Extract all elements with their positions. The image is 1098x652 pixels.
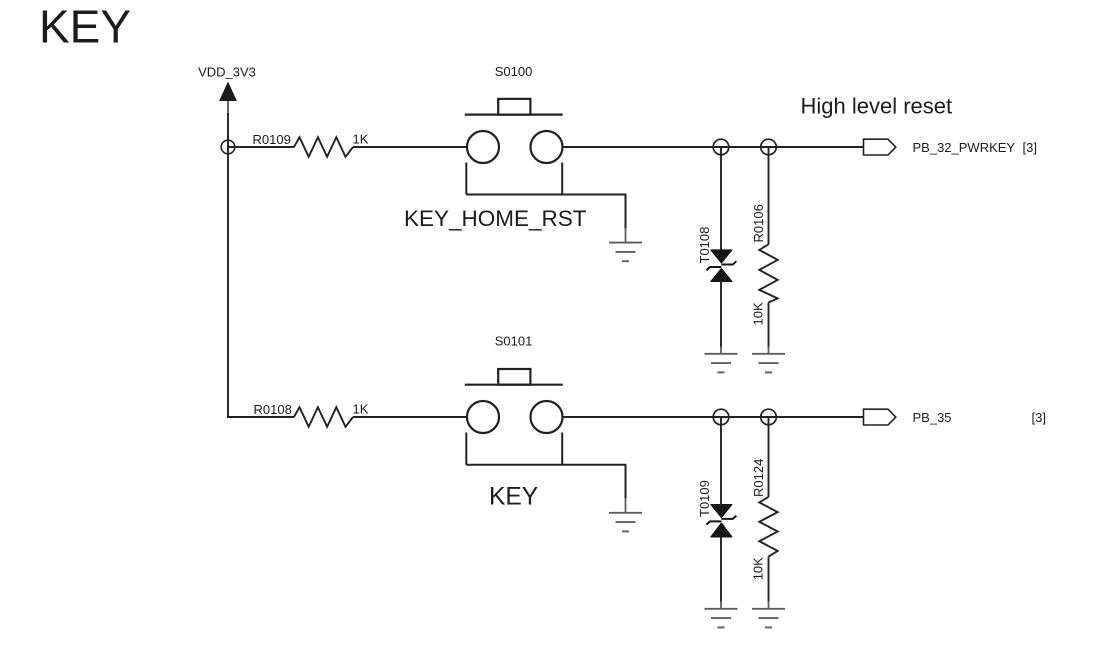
svg-text:10K: 10K xyxy=(751,557,766,580)
switch S0100 right leg xyxy=(561,163,563,195)
ground under T0109 xyxy=(705,609,738,628)
svg-text:1K: 1K xyxy=(353,132,369,147)
svg-text:T0108: T0108 xyxy=(697,227,712,264)
switch S0101 button xyxy=(498,369,530,385)
svg-text:1K: 1K xyxy=(353,402,369,417)
resistor R0124 xyxy=(759,497,777,557)
wire R0124 to ground xyxy=(768,557,770,602)
off-page connector tag PB_35 xyxy=(864,409,896,425)
switch S0101 right contact xyxy=(531,401,563,433)
switch S0101 right leg xyxy=(561,433,563,465)
ground under R0106 xyxy=(752,354,785,373)
pin tail gray xyxy=(720,601,722,608)
svg-text:KEY_HOME_RST: KEY_HOME_RST xyxy=(404,206,587,231)
svg-text:R0108: R0108 xyxy=(254,402,292,417)
ground under R0124 xyxy=(752,609,785,628)
svg-text:[3]: [3] xyxy=(1032,410,1046,425)
switch S0100 left leg xyxy=(465,163,467,195)
off-page connector tag PB_32_PWRKEY xyxy=(864,139,896,155)
pin tail gray xyxy=(768,347,770,354)
svg-text:R0124: R0124 xyxy=(751,459,766,497)
switch S0100 bottom bar / wire to ground xyxy=(466,195,625,230)
junction node circle 3 xyxy=(713,409,729,425)
stem to resistor R0124 xyxy=(768,417,770,497)
svg-text:R0109: R0109 xyxy=(253,132,291,147)
stem to diode T0109 xyxy=(720,417,722,505)
svg-text:S0100: S0100 xyxy=(495,64,533,79)
power pin stem (gray) xyxy=(227,101,229,115)
resistor R0108 xyxy=(294,407,353,427)
svg-text:KEY: KEY xyxy=(489,484,538,511)
wire diode to ground xyxy=(720,281,722,347)
svg-text:[3]: [3] xyxy=(1023,140,1037,155)
resistor R0106 xyxy=(759,244,777,302)
node A circle at VDD branch xyxy=(221,140,235,154)
switch S0101 bottom bar / wire to ground xyxy=(466,465,625,499)
svg-text:PB_32_PWRKEY: PB_32_PWRKEY xyxy=(913,140,1016,155)
ground under S0101 xyxy=(609,513,642,532)
wire S0100 to output tag xyxy=(563,146,864,148)
ground pin tail (gray) xyxy=(625,228,627,242)
svg-text:10K: 10K xyxy=(751,302,766,325)
wire node to R0109 xyxy=(228,146,294,148)
wire R0109 to S0100 xyxy=(353,146,467,148)
wire vertical from VDD node down to lower branch and corner to R0108 xyxy=(228,113,294,417)
switch S0100 left contact xyxy=(467,131,499,163)
svg-text:KEY: KEY xyxy=(39,1,131,53)
switch S0101 left leg xyxy=(465,433,467,465)
pin tail gray xyxy=(720,347,722,354)
svg-text:T0109: T0109 xyxy=(697,480,712,517)
junction node circle 2 xyxy=(761,139,777,155)
switch S0100 actuator bar xyxy=(465,113,563,115)
svg-text:PB_35: PB_35 xyxy=(913,410,952,425)
resistor R0109 xyxy=(294,137,353,157)
svg-text:VDD_3V3: VDD_3V3 xyxy=(198,65,256,80)
wire diode to ground xyxy=(720,537,722,602)
TVS diode T0109 xyxy=(706,505,736,537)
power symbol VDD_3V3 arrow xyxy=(219,82,237,102)
ground under T0108 xyxy=(705,354,738,373)
pin tail gray xyxy=(768,601,770,608)
switch S0101 left contact xyxy=(467,401,499,433)
svg-text:R0106: R0106 xyxy=(751,204,766,242)
svg-text:High level reset: High level reset xyxy=(801,94,953,119)
switch S0100 right contact xyxy=(531,131,563,163)
ground pin tail gray xyxy=(625,498,627,512)
TVS diode T0108 xyxy=(706,250,736,281)
switch S0101 actuator bar xyxy=(465,384,563,386)
stem to diode T0108 xyxy=(720,147,722,251)
junction node circle 1 xyxy=(713,139,729,155)
wire S0101 to output tag xyxy=(563,416,864,418)
wire R0108 to S0101 xyxy=(353,416,467,418)
switch S0100 button xyxy=(498,99,530,115)
ground under S0100 xyxy=(609,243,642,262)
wire R0106 to ground xyxy=(768,303,770,348)
junction node circle 4 xyxy=(761,409,777,425)
stem to resistor R0106 xyxy=(768,147,770,244)
svg-text:S0101: S0101 xyxy=(495,334,533,349)
